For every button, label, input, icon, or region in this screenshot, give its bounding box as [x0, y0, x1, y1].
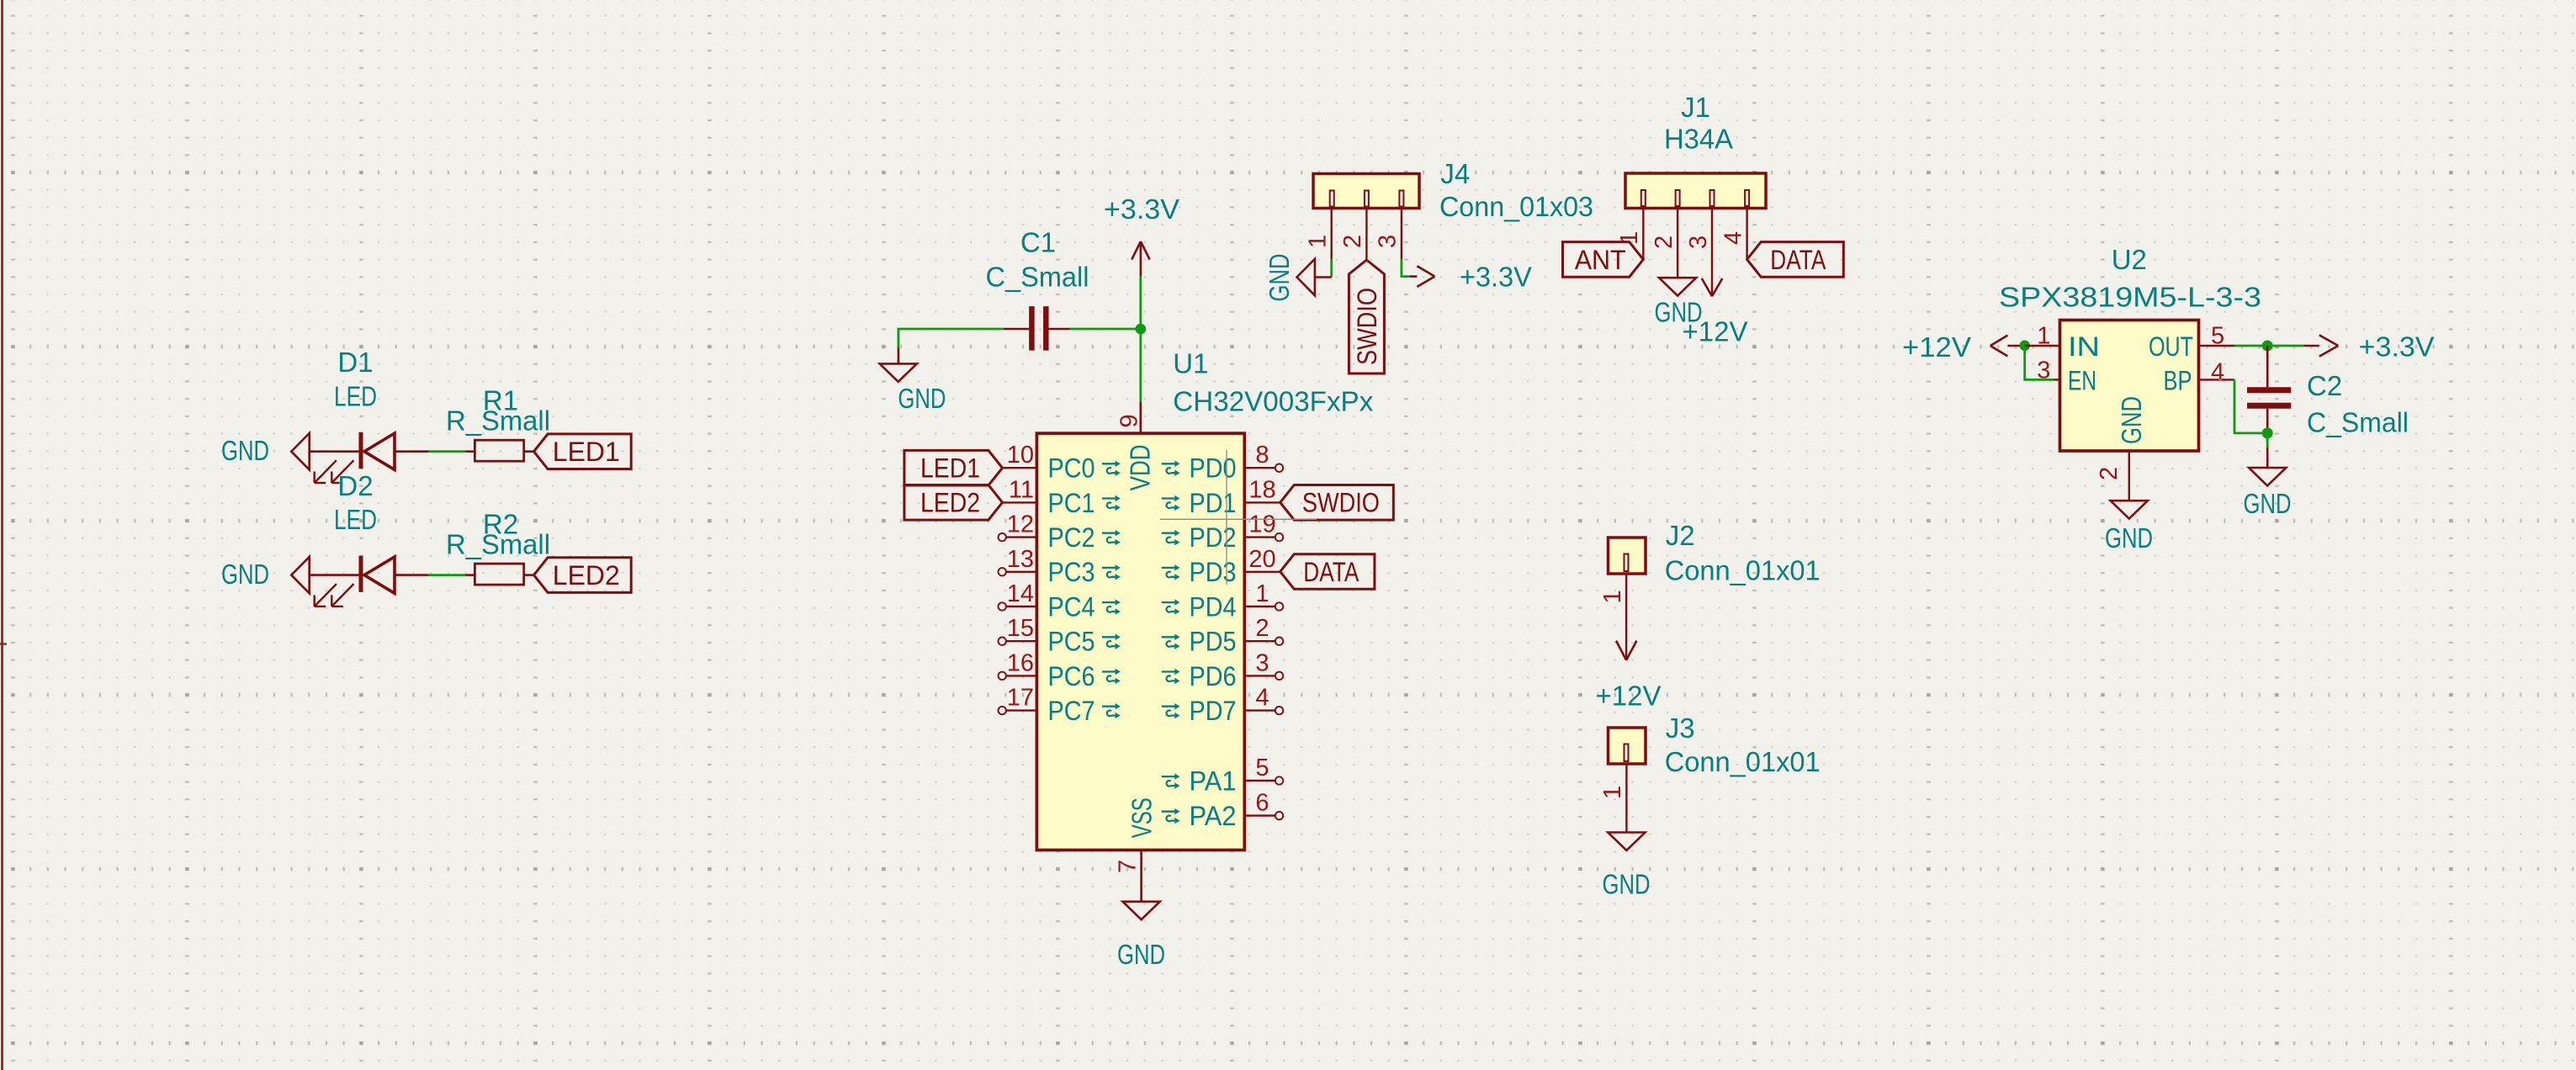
- svg-text:15: 15: [1007, 615, 1034, 642]
- svg-text:PD2: PD2: [1190, 522, 1237, 553]
- svg-text:DATA: DATA: [1770, 245, 1826, 275]
- svg-text:2: 2: [1255, 615, 1269, 642]
- pin 1 (PD4): [1244, 606, 1275, 607]
- svg-text:PC1: PC1: [1048, 488, 1095, 518]
- wire BP to C2 bottom: [2234, 379, 2267, 433]
- ground U2: [2111, 501, 2148, 518]
- pin 2 (PD5): [1244, 640, 1275, 642]
- svg-text:PD5: PD5: [1190, 627, 1237, 657]
- wire C1 right: [1069, 328, 1140, 331]
- svg-text:PC0: PC0: [1048, 453, 1095, 484]
- svg-text:PD1: PD1: [1190, 488, 1237, 518]
- svg-text:D1: D1: [337, 347, 373, 378]
- svg-text:Conn_01x03: Conn_01x03: [1439, 191, 1593, 222]
- ground C1: [880, 363, 917, 381]
- wire VDD: [1139, 276, 1142, 329]
- svg-text:PD4: PD4: [1190, 591, 1237, 622]
- power +12V (J1.3): [1702, 278, 1712, 296]
- svg-text:17: 17: [1007, 685, 1034, 712]
- pin 14 (PC4): [1006, 606, 1037, 607]
- svg-text:PC6: PC6: [1048, 661, 1095, 691]
- pin 1 J3: [1625, 764, 1627, 833]
- pin 2 J4: [1365, 209, 1367, 261]
- wire: [524, 450, 534, 453]
- svg-text:8: 8: [1255, 442, 1269, 469]
- pin 16 (PC6): [1006, 675, 1037, 676]
- svg-text:PA1: PA1: [1190, 765, 1237, 796]
- global label LED1 (net to R1): [534, 434, 632, 469]
- svg-text:VSS: VSS: [1126, 797, 1157, 838]
- svg-text:GND: GND: [1264, 254, 1295, 302]
- pin 4 (PD7): [1244, 709, 1275, 711]
- wire: [310, 450, 361, 453]
- svg-text:3: 3: [1255, 649, 1269, 676]
- svg-text:OUT: OUT: [2149, 331, 2193, 362]
- svg-text:C_Small: C_Small: [986, 262, 1089, 293]
- svg-text:GND: GND: [2244, 488, 2292, 519]
- wire D1 anode to R1: [395, 450, 429, 453]
- svg-text:2: 2: [1651, 236, 1678, 249]
- svg-text:14: 14: [1007, 580, 1034, 607]
- svg-text:2: 2: [2096, 467, 2123, 480]
- svg-text:18: 18: [1248, 476, 1275, 503]
- wire: [1139, 329, 1142, 402]
- svg-text:PC2: PC2: [1048, 522, 1095, 553]
- svg-text:+3.3V: +3.3V: [1104, 193, 1179, 225]
- svg-text:SPX3819M5-L-3-3: SPX3819M5-L-3-3: [1999, 281, 2261, 312]
- svg-text:9: 9: [1116, 414, 1143, 427]
- global label ANT: [1563, 242, 1644, 278]
- svg-text:2: 2: [1339, 235, 1366, 248]
- svg-text:SWDIO: SWDIO: [1302, 488, 1380, 518]
- pin 19 (PD2): [1244, 536, 1275, 538]
- pin 3 (EN): [2054, 379, 2060, 380]
- svg-text:12: 12: [1007, 511, 1034, 538]
- svg-text:PD0: PD0: [1190, 453, 1237, 484]
- pin 1 J1: [1642, 209, 1644, 260]
- junction OUT node: [2262, 341, 2273, 352]
- svg-text:C_Small: C_Small: [2307, 407, 2409, 438]
- global label LED2 (net to R2): [534, 558, 632, 593]
- pin 10 (PC0): [1003, 467, 1037, 469]
- svg-text:PC4: PC4: [1048, 591, 1095, 622]
- svg-text:LED1: LED1: [553, 437, 620, 467]
- svg-text:5: 5: [2211, 322, 2224, 349]
- power +12V (J2): [1616, 641, 1626, 660]
- svg-text:+12V: +12V: [1683, 316, 1748, 347]
- svg-text:LED: LED: [334, 380, 377, 411]
- pin 20 (PD3): [1244, 571, 1280, 573]
- svg-text:5: 5: [1255, 755, 1269, 781]
- pin 17 (PC7): [1006, 709, 1037, 711]
- svg-text:6: 6: [1255, 790, 1269, 817]
- ground (C2): [2266, 448, 2269, 468]
- svg-text:D2: D2: [337, 470, 373, 501]
- svg-text:3: 3: [2037, 358, 2050, 384]
- pin 5 (PA1): [1244, 780, 1275, 781]
- LED symbol D1: [359, 432, 363, 469]
- svg-text:R_Small: R_Small: [446, 528, 550, 559]
- svg-text:J2: J2: [1666, 520, 1695, 551]
- pin 11 (PC1): [1003, 501, 1037, 503]
- wire: [310, 574, 361, 576]
- pin 18 (PD1): [1244, 501, 1280, 503]
- svg-text:7: 7: [1115, 860, 1142, 873]
- svg-text:3: 3: [1375, 235, 1402, 248]
- svg-text:LED2: LED2: [920, 488, 980, 518]
- junction VDD node: [1136, 324, 1147, 335]
- svg-text:4: 4: [1255, 685, 1269, 712]
- connector J2 Conn_01x01: [1609, 538, 1646, 574]
- svg-text:C1: C1: [1020, 226, 1056, 257]
- svg-text:13: 13: [1007, 546, 1034, 573]
- svg-text:16: 16: [1007, 649, 1034, 676]
- IC U1 CH32V003FxPx body: [1036, 433, 1244, 850]
- ground flag D1: [291, 433, 309, 469]
- connector J4 Conn_01x03: [1313, 174, 1419, 209]
- power +3.3V (U2 out): [2303, 345, 2319, 347]
- pin 3 J4: [1401, 209, 1402, 260]
- pin 5 (OUT): [2199, 345, 2235, 347]
- pin 6 (PA2): [1244, 814, 1275, 816]
- svg-text:20: 20: [1248, 546, 1275, 573]
- connector J1 H34A: [1625, 173, 1766, 209]
- global label DATA (pin 20): [1280, 554, 1375, 590]
- svg-text:1: 1: [1599, 590, 1626, 603]
- pin 4 (BP): [2199, 379, 2235, 380]
- wire EN: [2025, 346, 2054, 379]
- sheet border: [1, 0, 3, 1070]
- svg-text:GND: GND: [898, 383, 946, 414]
- global label DATA (J1): [1747, 242, 1844, 278]
- svg-text:GND: GND: [1117, 939, 1165, 970]
- pin 1 J4: [1330, 209, 1332, 260]
- wire: [524, 574, 534, 576]
- svg-text:1: 1: [2037, 322, 2050, 349]
- pin 7 (VSS): [1140, 850, 1142, 902]
- svg-text:J3: J3: [1666, 712, 1695, 744]
- svg-text:3: 3: [1685, 236, 1712, 249]
- wire: [1402, 259, 1410, 277]
- ground J1.2: [1659, 278, 1696, 295]
- pin 2 J1: [1677, 209, 1678, 278]
- wire D2 anode to R2: [395, 574, 429, 576]
- pin 8 (PD0): [1244, 467, 1275, 469]
- svg-text:+3.3V: +3.3V: [1460, 262, 1532, 293]
- svg-text:GND: GND: [2105, 522, 2153, 554]
- pin 1 J2: [1625, 574, 1627, 660]
- svg-text:PD7: PD7: [1190, 696, 1237, 726]
- svg-text:19: 19: [1248, 511, 1275, 538]
- svg-text:LED2: LED2: [553, 560, 620, 591]
- global label LED1 (pin 10): [904, 450, 1003, 485]
- svg-text:J4: J4: [1440, 158, 1470, 189]
- svg-text:CH32V003FxPx: CH32V003FxPx: [1173, 386, 1374, 417]
- svg-text:PD6: PD6: [1190, 661, 1237, 691]
- wire: [2266, 433, 2269, 448]
- global label SWDIO (J4): [1349, 260, 1384, 373]
- svg-text:PC3: PC3: [1048, 557, 1095, 587]
- pin 12 (PC2): [1006, 536, 1037, 538]
- pin 3 (PD6): [1244, 675, 1275, 676]
- svg-text:BP: BP: [2164, 365, 2192, 395]
- global label LED2 (pin 11): [904, 485, 1003, 521]
- power +3.3V (J4.3): [1410, 275, 1417, 278]
- global label SWDIO (pin 18): [1280, 485, 1394, 521]
- pin 4 J1: [1746, 209, 1747, 260]
- pin 15 (PC5): [1006, 640, 1037, 642]
- svg-text:J1: J1: [1681, 92, 1710, 123]
- pin 3 J1: [1711, 209, 1713, 297]
- svg-text:4: 4: [1720, 231, 1747, 245]
- svg-text:GND: GND: [1603, 868, 1651, 899]
- svg-text:SWDIO: SWDIO: [1352, 288, 1382, 365]
- svg-text:H34A: H34A: [1664, 123, 1733, 154]
- svg-text:Conn_01x01: Conn_01x01: [1665, 746, 1821, 777]
- junction C2 bottom: [2262, 427, 2273, 438]
- junction U2 IN: [2019, 341, 2030, 352]
- ground C2: [2249, 468, 2286, 485]
- svg-text:1: 1: [1599, 786, 1626, 799]
- svg-text:Conn_01x01: Conn_01x01: [1665, 555, 1821, 586]
- svg-text:+12V: +12V: [1596, 681, 1662, 712]
- wire: [1330, 259, 1333, 277]
- svg-text:GND: GND: [221, 435, 269, 466]
- svg-text:ANT: ANT: [1575, 245, 1626, 275]
- svg-text:IN: IN: [2068, 331, 2100, 362]
- svg-text:PA2: PA2: [1190, 801, 1237, 831]
- pin 13 (PC3): [1006, 571, 1037, 573]
- svg-text:U1: U1: [1173, 347, 1208, 379]
- svg-text:GND: GND: [2116, 396, 2147, 444]
- svg-text:+12V: +12V: [1902, 331, 1971, 363]
- svg-text:PC5: PC5: [1048, 627, 1095, 657]
- svg-text:VDD: VDD: [1125, 444, 1156, 490]
- IC U2 SPX3819M5-L-3-3 body: [2060, 320, 2199, 452]
- pin 2 (U2 GND): [2128, 451, 2130, 501]
- svg-text:LED1: LED1: [920, 453, 980, 484]
- ground flag J4.1: [1297, 259, 1315, 295]
- ground J3: [1608, 833, 1645, 850]
- svg-text:1: 1: [1255, 580, 1269, 607]
- svg-text:R_Small: R_Small: [446, 405, 550, 437]
- svg-text:LED: LED: [334, 504, 377, 535]
- svg-text:4: 4: [2211, 358, 2224, 385]
- ground flag D2: [291, 557, 309, 593]
- svg-text:11: 11: [1009, 476, 1034, 503]
- wire C1 left: [898, 328, 1004, 331]
- svg-text:C2: C2: [2307, 370, 2342, 401]
- ground U1: [1123, 902, 1160, 919]
- wire OUT: [2234, 345, 2303, 347]
- svg-text:GND: GND: [221, 559, 269, 590]
- connector J3 Conn_01x01: [1609, 728, 1646, 764]
- svg-text:1: 1: [1305, 235, 1332, 248]
- svg-text:PD3: PD3: [1190, 557, 1237, 587]
- svg-text:EN: EN: [2068, 365, 2096, 395]
- svg-text:U2: U2: [2112, 244, 2147, 275]
- svg-text:10: 10: [1007, 442, 1034, 469]
- ground (C1): [898, 347, 900, 363]
- cursor crosshair: [1160, 518, 1317, 520]
- pin 1 (IN): [2025, 345, 2060, 347]
- svg-text:+3.3V: +3.3V: [2359, 331, 2435, 362]
- svg-text:DATA: DATA: [1303, 557, 1360, 587]
- pin 9 (VDD): [1140, 402, 1142, 433]
- LED symbol D2: [359, 556, 363, 592]
- svg-text:PC7: PC7: [1048, 696, 1095, 726]
